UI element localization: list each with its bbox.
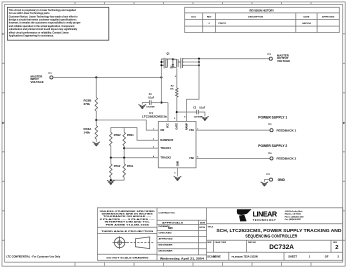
resistor RC6B — [84, 77, 98, 111]
wire RTB top rail — [111, 126, 137, 128]
terminal TP4 FEEDBACK 2 — [258, 144, 296, 161]
svg-text:VCC: VCC — [167, 123, 170, 128]
svg-text:CONTRACT NO.: CONTRACT NO. — [159, 212, 176, 215]
wire RAMP net from drains — [187, 59, 200, 122]
svg-text:140k: 140k — [84, 130, 91, 134]
op-amp U1 LTC2923CMS10 box — [142, 111, 196, 168]
terminal TP3 FEEDBACK 1 — [258, 115, 296, 132]
transistor Q1 dual P-MOSFET — [160, 54, 184, 78]
svg-text:ENGINEER: ENGINEER — [159, 245, 174, 247]
svg-text:SCH, LTC2923CMS, POWER SUPPLY: SCH, LTC2923CMS, POWER SUPPLY TRACKING A… — [216, 228, 342, 233]
svg-text:FB2: FB2 — [189, 157, 194, 160]
wire master input bus — [53, 76, 161, 78]
svg-text:Milpitas, CA 95035: Milpitas, CA 95035 — [285, 213, 301, 216]
ground below C2 — [201, 116, 209, 120]
frame zone ticks left — [2, 34, 5, 241]
svg-text:TP1: TP1 — [48, 73, 51, 75]
node RTA ground junction — [110, 179, 112, 181]
svg-text:FEEDBACK 2: FEEDBACK 2 — [277, 157, 297, 161]
svg-text:Applications Engineering for a: Applications Engineering for assistance. — [9, 35, 54, 38]
svg-text:10: 10 — [165, 116, 167, 118]
svg-text:2 PLACES ---- 3 PLACES ----: 2 PLACES ---- 3 PLACES ---- — [100, 218, 156, 221]
ground TP5 — [261, 182, 269, 186]
wire FB1 net — [196, 129, 270, 131]
node drain junctions — [198, 58, 200, 60]
wire FB2 net — [196, 157, 270, 159]
svg-text:SHEET: SHEET — [288, 255, 297, 259]
resistor RTA2 — [110, 158, 121, 178]
svg-text:DATE: DATE — [304, 15, 310, 18]
svg-text:VOLTAGE: VOLTAGE — [31, 80, 44, 84]
svg-text:5: 5 — [174, 172, 175, 174]
svg-text:CHECKED: CHECKED — [159, 232, 173, 234]
wire ON net — [96, 120, 158, 130]
svg-text:POWER SUPPLY 2: POWER SUPPLY 2 — [258, 144, 287, 148]
svg-text:SEQUENCING CONTROLLER: SEQUENCING CONTROLLER — [245, 233, 297, 238]
svg-text:RAMPBUF: RAMPBUF — [160, 138, 173, 142]
svg-text:GND: GND — [278, 178, 286, 182]
svg-text:DC732A: DC732A — [269, 244, 294, 251]
svg-text:732A-2.DSN: 732A-2.DSN — [244, 256, 258, 259]
third angle projection symbol — [113, 236, 154, 249]
svg-text:TP5: TP5 — [266, 174, 269, 176]
svg-text:REV: REV — [207, 16, 212, 18]
capacitor C2 — [177, 108, 206, 119]
svg-text:DIMENSIONS ARE IN INCHES: DIMENSIONS ARE IN INCHES — [102, 213, 154, 216]
svg-text:UNLESS OTHERWISE SPECIFIED: UNLESS OTHERWISE SPECIFIED — [100, 211, 156, 213]
svg-text:This circuit is proprietary to: This circuit is proprietary to Linear Te… — [9, 9, 77, 12]
svg-text:PER ASME Y14.5M-1994: PER ASME Y14.5M-1994 — [106, 223, 151, 226]
svg-text:Fax: (408)434-0507: Fax: (408)434-0507 — [285, 218, 301, 221]
svg-text:270k: 270k — [84, 102, 91, 106]
svg-text:2: 2 — [335, 245, 338, 251]
resistor RTB1 — [123, 127, 134, 145]
svg-text:DESIGNER: DESIGNER — [159, 251, 174, 253]
frame zone ticks top — [75, 2, 311, 5]
svg-text:RAMP: RAMP — [185, 123, 188, 130]
revision history table — [185, 7, 340, 32]
svg-text:OF: OF — [325, 255, 329, 259]
svg-text:9: 9 — [174, 118, 175, 120]
svg-text:4: 4 — [175, 75, 176, 78]
svg-text:INTERPRET DIM AND TOL: INTERPRET DIM AND TOL — [105, 221, 151, 224]
svg-text:for use with Linear Technology: for use with Linear Technology parts. — [9, 12, 51, 15]
node RTB1-TRACK1 junction — [123, 146, 125, 158]
terminal TP2 MASTER OUTPUT VOLTAGE — [267, 54, 290, 63]
wire RAMPBUF net — [137, 127, 158, 140]
svg-text:ECO: ECO — [191, 16, 196, 18]
svg-text:DATE: DATE — [200, 222, 206, 225]
svg-text:TITLE: TITLE — [208, 227, 214, 229]
svg-text:TP3: TP3 — [268, 124, 271, 126]
svg-text:REVISION HISTORY: REVISION HISTORY — [250, 9, 275, 13]
node RC6 divider junction — [95, 111, 97, 126]
svg-text:APPROVED: APPROVED — [159, 237, 174, 240]
svg-text:affect circuit performance or: affect circuit performance or reliabilit… — [9, 31, 69, 34]
wire RTA bottom rail — [111, 177, 124, 180]
capacitor C1 — [142, 94, 161, 108]
svg-text:LTC CONFIDENTIAL - For Custome: LTC CONFIDENTIAL - For Customer Use Only — [6, 255, 61, 258]
wire Q1 drain to TP2 — [184, 58, 269, 60]
svg-text:0.1uF: 0.1uF — [148, 97, 155, 99]
svg-text:GATE: GATE — [176, 123, 179, 130]
node gate-C2 junction — [176, 111, 178, 113]
frame zone ticks bottom — [75, 262, 311, 266]
middle approvals section — [157, 220, 207, 255]
svg-text:FEEDBACK 1: FEEDBACK 1 — [277, 128, 297, 132]
svg-text:FILENAME: FILENAME — [232, 255, 244, 258]
svg-text:TECHNOLOGY: TECHNOLOGY — [253, 218, 277, 222]
svg-text:substitution and printed circu: substitution and printed circuit board l… — [9, 28, 78, 31]
svg-text:LTC2923CMS10: LTC2923CMS10 — [142, 114, 166, 118]
svg-text:LINEAR: LINEAR — [253, 210, 278, 219]
svg-text:CAGE CODE: CAGE CODE — [215, 241, 227, 244]
svg-text:8: 8 — [184, 116, 185, 118]
svg-text:TP2: TP2 — [267, 54, 270, 56]
svg-text:ON: ON — [160, 128, 164, 132]
svg-text:TRACK1: TRACK1 — [160, 146, 171, 150]
svg-text:DO NOT SCALE DRAWING: DO NOT SCALE DRAWING — [107, 256, 149, 259]
svg-text:RTA1: RTA1 — [127, 164, 134, 168]
node TRACK2 rail junctions — [110, 157, 112, 159]
svg-text:RTA2: RTA2 — [114, 164, 121, 168]
svg-text:Phone: (408)432-1900: Phone: (408)432-1900 — [285, 215, 304, 218]
left tolerance section — [97, 227, 157, 254]
svg-text:NONE: NONE — [213, 255, 221, 259]
proprietary notice box — [7, 7, 108, 40]
svg-text:DWG NO: DWG NO — [248, 242, 257, 244]
ground below RC6A — [95, 139, 97, 142]
resistor RC6A — [84, 126, 98, 140]
svg-text:10V/X5R: 10V/X5R — [146, 106, 155, 108]
svg-text:FB1: FB1 — [189, 129, 194, 132]
resistor RTB2 — [110, 127, 122, 145]
svg-text:0.1uF: 0.1uF — [199, 108, 206, 110]
node bus-Q1 junction — [160, 76, 162, 78]
svg-text:04/21/04: 04/21/04 — [302, 22, 311, 25]
wire RTB2 bottom to TRACK2 rail — [110, 146, 112, 158]
node VCC-C1 junction — [160, 102, 162, 104]
svg-text:TRACK2: TRACK2 — [160, 156, 171, 160]
svg-text:Wednesday, April 21, 2004: Wednesday, April 21, 2004 — [160, 257, 205, 260]
svg-text:GND: GND — [176, 161, 179, 167]
title text — [207, 227, 342, 259]
svg-text:however, it remains the custom: however, it remains the customers respon… — [9, 22, 81, 25]
ground below C1 — [139, 105, 147, 109]
ground below RTA — [107, 180, 115, 184]
svg-text:DESCRIPTION: DESCRIPTION — [248, 16, 263, 18]
svg-text:VOLTAGE: VOLTAGE — [277, 59, 290, 63]
wire TRACK2 net — [111, 157, 159, 159]
node bus-RC6B junction — [95, 76, 97, 78]
svg-text:APPROVALS: APPROVALS — [162, 222, 184, 225]
wire VCC net — [161, 77, 168, 121]
Linear Technology logo — [237, 209, 304, 222]
terminal TP5 GND — [264, 174, 285, 182]
svg-text:1630 McCarthy Blvd.: 1630 McCarthy Blvd. — [285, 210, 304, 213]
svg-text:PROTO: PROTO — [219, 23, 227, 25]
ground IC GND pin — [177, 168, 179, 177]
svg-text:SIZE: SIZE — [207, 242, 212, 244]
svg-text:TOLERANCE ON ANGLE ----: TOLERANCE ON ANGLE ---- — [103, 215, 152, 218]
resistor RTA1 — [123, 158, 134, 178]
svg-text:APPROVED: APPROVED — [322, 15, 335, 18]
resistor R2 gate — [170, 68, 178, 97]
svg-text:and reliable operation in the: and reliable operation in the actual app… — [9, 25, 75, 28]
svg-text:POWER SUPPLY 1: POWER SUPPLY 1 — [258, 115, 287, 119]
frame zone ticks right — [343, 34, 346, 241]
svg-text:RTB2: RTB2 — [114, 133, 121, 137]
right section rows — [207, 224, 343, 253]
svg-text:1: 1 — [153, 128, 154, 130]
svg-text:THIRD ANGLE PROJECTION: THIRD ANGLE PROJECTION — [101, 230, 154, 233]
svg-text:design a circuit that meets cu: design a circuit that meets customer-sup… — [9, 19, 77, 22]
svg-text:Customer Notice: Linear Techno: Customer Notice: Linear Technology has m… — [9, 15, 78, 18]
wire TRACK1 net — [124, 147, 158, 149]
terminal TP1 MASTER INPUT VOLTAGE — [31, 73, 53, 84]
svg-text:RTB1: RTB1 — [127, 133, 134, 137]
wire gate to GATE pin — [176, 97, 178, 121]
wire Q1 drain fingers — [184, 62, 199, 65]
